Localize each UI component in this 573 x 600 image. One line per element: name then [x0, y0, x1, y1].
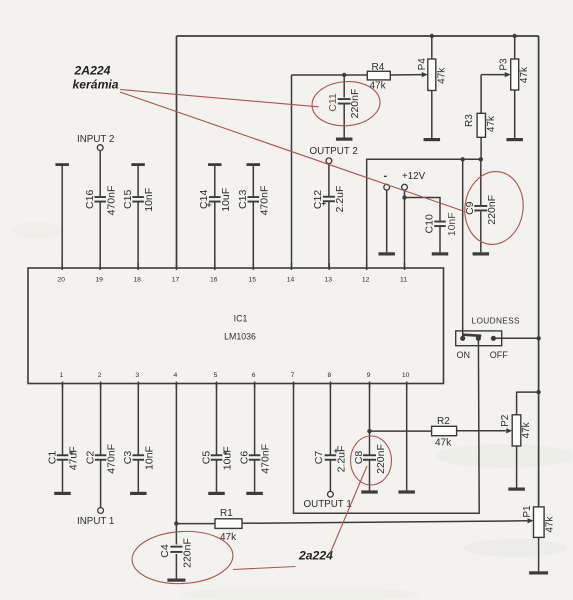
wire: C15 column (pin 18)	[137, 165, 139, 197]
ground C6	[246, 492, 263, 495]
switch contact middle (wiper)	[476, 336, 481, 341]
pin 11 (top)	[404, 263, 406, 270]
svg-text:8: 8	[328, 372, 332, 379]
pin 9 (bottom)	[369, 382, 371, 389]
svg-text:+12V: +12V	[402, 171, 426, 182]
svg-text:OUTPUT 2: OUTPUT 2	[310, 146, 358, 157]
svg-text:47k: 47k	[486, 115, 497, 132]
svg-text:kerámia: kerámia	[73, 78, 119, 92]
svg-text:R4: R4	[372, 62, 385, 73]
wire: pin 20 column	[61, 165, 63, 268]
ground C11	[336, 138, 353, 141]
svg-text:C3: C3	[122, 451, 134, 465]
svg-text:12: 12	[362, 277, 370, 284]
svg-text:C2: C2	[84, 451, 96, 465]
svg-text:P1: P1	[522, 505, 533, 518]
potentiometer P2 47k	[512, 415, 521, 446]
svg-text:16: 16	[210, 277, 218, 284]
svg-text:470nF: 470nF	[259, 186, 271, 216]
ground C5	[208, 492, 225, 495]
capacitor C9 220nF	[474, 205, 487, 207]
pin 13 (top)	[328, 263, 330, 270]
wire: C5 column (pin 5)	[216, 384, 218, 455]
wire: C4 to ground	[175, 554, 177, 579]
potentiometer P3 47k	[511, 59, 519, 90]
pin 1 (bottom)	[62, 382, 64, 389]
svg-text:C15: C15	[122, 190, 134, 209]
junction R3/C9	[479, 157, 483, 161]
pin 18 (top)	[137, 263, 139, 270]
annotation leader C8 to 2a224	[331, 466, 368, 553]
svg-text:R3: R3	[464, 114, 475, 127]
wire: R4 input	[292, 74, 368, 76]
pin 3 (bottom)	[137, 382, 139, 389]
capacitor C14 10uF electrolytic	[209, 196, 221, 198]
svg-text:6: 6	[252, 372, 256, 379]
wire: C13 column (pin 15)	[252, 165, 254, 197]
svg-text:5: 5	[214, 372, 218, 379]
svg-text:1: 1	[60, 372, 64, 379]
svg-text:2A224: 2A224	[74, 64, 111, 78]
ground P3	[506, 138, 523, 141]
ground C10	[432, 252, 449, 255]
pin 16 (top)	[214, 263, 216, 270]
svg-text:R1: R1	[220, 508, 233, 519]
wire: +12V to C10	[405, 198, 441, 221]
ground P4	[424, 138, 441, 141]
wire: C3 column (pin 3)	[137, 384, 139, 455]
wire: loudness wiper down, across to pin 7	[294, 338, 480, 513]
svg-text:47k: 47k	[519, 66, 530, 83]
svg-text:C12: C12	[312, 190, 324, 209]
capacitor C11 220nF	[338, 98, 351, 100]
svg-text:18: 18	[133, 277, 141, 284]
wire: pin 17 up to top rail	[176, 36, 178, 268]
switch contact ON	[460, 336, 465, 341]
svg-text:20: 20	[57, 277, 65, 284]
svg-text:220nF: 220nF	[182, 538, 194, 568]
ground C3	[130, 492, 147, 495]
switch lever bar	[463, 335, 482, 336]
svg-text:C13: C13	[237, 190, 249, 209]
svg-text:LOUDNESS: LOUDNESS	[472, 316, 521, 326]
wire: P1 bottom to ground	[538, 537, 540, 571]
svg-text:C10: C10	[423, 214, 435, 233]
wire: P2 top to right bus	[517, 392, 539, 415]
node OUTPUT 1 terminal	[328, 491, 334, 497]
pin 6 (bottom)	[254, 382, 256, 389]
svg-text:INPUT 1: INPUT 1	[77, 516, 114, 527]
wire: R4 to P4 wiper	[390, 74, 422, 76]
node INPUT 1 terminal	[98, 508, 104, 514]
switch contact OFF	[491, 336, 496, 341]
potentiometer P1 47k	[534, 507, 545, 538]
ground P1	[529, 571, 548, 574]
junction +12V / C10	[402, 195, 406, 199]
svg-text:7: 7	[291, 372, 295, 379]
svg-text:C16: C16	[84, 190, 96, 209]
pin 19 (top)	[99, 263, 101, 270]
svg-text:C6: C6	[238, 451, 250, 465]
capacitor C12 2.2uF electrolytic	[323, 196, 335, 198]
annotation leader to C11	[120, 90, 319, 107]
annotation ellipse around C11	[311, 79, 382, 128]
svg-text:P2: P2	[500, 414, 511, 427]
svg-text:3: 3	[135, 372, 139, 379]
capacitor C4 220nF	[170, 546, 182, 548]
pin 2 (bottom)	[100, 382, 102, 389]
ground C9	[473, 252, 490, 255]
junction OFF wire on bus	[536, 336, 540, 340]
ground P2	[508, 488, 524, 491]
svg-text:9: 9	[367, 372, 371, 379]
junction loudness feed	[461, 157, 465, 161]
svg-text:19: 19	[95, 277, 103, 284]
capacitor C3 10nF	[133, 454, 145, 456]
terminator bar C13	[247, 163, 260, 166]
wire: OFF contact to right bus	[493, 337, 538, 339]
terminator bar pin 20	[55, 163, 68, 166]
svg-text:10uF: 10uF	[222, 446, 234, 470]
wire: pin 10 to ground	[406, 384, 408, 491]
annotation ellipse around C8	[351, 436, 392, 485]
resistor R2 47k	[432, 426, 457, 435]
wire: C6 column (pin 6)	[254, 384, 256, 455]
capacitor C1 47uF electrolytic	[57, 454, 69, 456]
svg-text:470nF: 470nF	[260, 444, 272, 474]
capacitor C5 10uF electrolytic	[211, 454, 223, 456]
capacitor C7 2.2uF electrolytic	[325, 454, 337, 456]
wire: C11 column	[343, 75, 345, 98]
potentiometer P4 47k	[428, 59, 436, 91]
svg-text:OUTPUT 1: OUTPUT 1	[304, 499, 352, 510]
pin 14 (top)	[291, 263, 293, 270]
wire: C2 column (pin 2) to INPUT1	[100, 384, 102, 455]
wire: right vertical bus	[538, 36, 540, 507]
svg-text:2.2uF: 2.2uF	[334, 186, 346, 213]
pin 4 (bottom)	[175, 382, 177, 389]
svg-text:47k: 47k	[437, 67, 448, 84]
resistor R1 47k	[215, 519, 242, 529]
svg-text:470nF: 470nF	[105, 186, 117, 216]
op-amp U1 : IC1 LM1036 body	[28, 268, 444, 384]
terminator bar C15	[131, 163, 145, 166]
wire: INPUT2 to C16 to pin 19	[99, 151, 101, 197]
capacitor C16 470nF	[94, 196, 106, 198]
junction C8/R2	[367, 429, 371, 433]
svg-text:14: 14	[287, 277, 295, 284]
ground minus terminal	[378, 252, 395, 255]
annotation leader C4 ellipse to 2a224	[233, 567, 296, 570]
annotation leader to C9	[120, 92, 465, 212]
svg-text:P3: P3	[499, 58, 510, 71]
svg-text:13: 13	[325, 277, 333, 284]
annotation ellipse around C9	[460, 168, 528, 248]
svg-text:220nF: 220nF	[349, 89, 361, 119]
wire: pin 12 up and +12V distribution rail	[367, 159, 481, 268]
pin 7 (bottom)	[293, 382, 295, 389]
svg-text:47k: 47k	[545, 516, 556, 533]
pin 10 (bottom)	[406, 382, 408, 389]
svg-text:2: 2	[98, 372, 102, 379]
wire: P3 top to rail	[513, 34, 517, 38]
svg-text:10: 10	[402, 372, 410, 379]
wire: P4 bottom to ground	[431, 91, 433, 139]
svg-text:47uF: 47uF	[68, 446, 80, 470]
wire: OUTPUT2 through C12 to pin 13	[328, 164, 330, 197]
wire: C10 to ground	[439, 227, 441, 252]
wire: P3 bottom to ground	[514, 90, 516, 138]
ground C8	[361, 490, 378, 493]
svg-text:10uF: 10uF	[220, 188, 232, 212]
junction C11 top	[342, 73, 346, 77]
capacitor C15 10nF	[132, 196, 144, 198]
wire: pin 4 down to R1/C4 junction	[175, 384, 177, 524]
svg-text:IC1: IC1	[234, 314, 248, 324]
svg-text:11: 11	[400, 277, 407, 284]
wire: rail to loudness ON contact	[462, 159, 464, 338]
wire: +12V to pin 11	[404, 190, 406, 268]
ground C4	[167, 579, 185, 582]
wire: C14 column (pin 16)	[214, 165, 216, 197]
svg-text:4: 4	[174, 372, 178, 379]
svg-text:LM1036: LM1036	[224, 332, 256, 342]
wire: P4 top to rail	[430, 34, 434, 38]
wire: R3 top to P3 wiper	[481, 74, 505, 76]
svg-text:220nF: 220nF	[375, 444, 387, 474]
svg-text:-: -	[384, 170, 388, 182]
svg-text:C1: C1	[46, 451, 58, 465]
pin 20 (top)	[61, 263, 63, 270]
svg-text:10nF: 10nF	[446, 212, 458, 236]
wire: R1 to P1 wiper	[242, 521, 527, 524]
annotation ellipse around C4	[131, 529, 235, 586]
wire: minus terminal to ground	[386, 190, 388, 252]
wire: P2 bottom to ground	[516, 446, 518, 488]
svg-text:OFF: OFF	[490, 350, 508, 360]
junction pin4/R1/C4	[174, 521, 178, 525]
pin 8 (bottom)	[329, 382, 331, 389]
wire: C8 column (pin 9)	[369, 384, 371, 455]
pin 12 (top)	[366, 263, 368, 270]
wire: C1 column (pin 1)	[62, 384, 64, 455]
svg-text:10nF: 10nF	[143, 188, 155, 212]
svg-text:470nF: 470nF	[106, 444, 118, 474]
svg-text:47k: 47k	[435, 438, 452, 449]
svg-text:C11: C11	[327, 93, 339, 112]
capacitor C13 470nF	[248, 196, 259, 198]
resistor R3 47k	[477, 113, 485, 137]
pin 15 (top)	[252, 263, 254, 270]
svg-text:C8: C8	[353, 451, 365, 465]
ground pin 10	[398, 490, 415, 493]
capacitor C2 470nF	[95, 454, 107, 456]
svg-text:C5: C5	[200, 451, 212, 465]
svg-text:C4: C4	[159, 544, 171, 558]
svg-text:17: 17	[172, 277, 180, 284]
wire: C4 from junction down	[175, 524, 177, 545]
wire: C7 column (pin 8) to OUTPUT1	[329, 384, 331, 455]
svg-text:2a224: 2a224	[298, 549, 333, 563]
svg-text:220nF: 220nF	[486, 195, 498, 225]
junction P2 top on bus	[536, 390, 540, 394]
svg-text:C7: C7	[313, 451, 325, 465]
svg-text:ON: ON	[457, 350, 471, 360]
pin 17 (top)	[176, 263, 178, 270]
wire: top supply rail	[177, 35, 539, 37]
capacitor C8 220nF	[363, 454, 376, 456]
wire: R3 bottom to +12V rail junction	[480, 137, 482, 159]
svg-text:INPUT 2: INPUT 2	[77, 134, 114, 145]
svg-text:2.2uF: 2.2uF	[336, 446, 348, 473]
wire: junction to R1	[176, 523, 215, 525]
svg-text:15: 15	[249, 277, 257, 284]
wire: pin 14 up to R4 wire	[291, 75, 293, 268]
wire: R2 to P2 wiper	[457, 430, 506, 432]
wire: C8 junction to R2	[370, 430, 432, 432]
pin 5 (bottom)	[216, 382, 218, 389]
terminator bar C14	[208, 163, 222, 166]
capacitor C6 470nF	[249, 454, 261, 456]
wire: C9 to ground	[480, 211, 482, 252]
svg-text:47k: 47k	[521, 421, 532, 438]
svg-text:47k: 47k	[220, 532, 237, 543]
resistor R4 47k	[367, 71, 390, 80]
svg-text:47k: 47k	[370, 81, 387, 92]
svg-text:P4: P4	[417, 58, 428, 71]
svg-text:R2: R2	[437, 416, 450, 427]
capacitor C10 10nF	[434, 221, 446, 223]
wire: C9 from rail junction	[480, 159, 482, 205]
svg-text:C14: C14	[198, 190, 210, 209]
svg-text:10nF: 10nF	[143, 446, 155, 470]
ground C1	[54, 492, 71, 495]
